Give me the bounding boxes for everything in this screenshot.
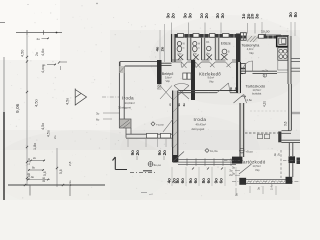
paper background washes (0, 0, 300, 200)
svg-text:Elősze: Elősze (221, 42, 231, 46)
svg-text:5,8: 5,8 (43, 171, 47, 176)
svg-text:4,5o: 4,5o (47, 130, 51, 137)
kitchen counter lower (278, 61, 288, 71)
ticks below window band (192, 168, 194, 170)
svg-text:Közlekedő: Közlekedő (199, 71, 221, 76)
north arrow pennant (75, 89, 86, 106)
wall below tartozkodo right (282, 130, 292, 132)
svg-text:4,2o: 4,2o (263, 101, 267, 107)
teakonyha right wall (288, 36, 291, 84)
svg-text:4,50: 4,50 (21, 50, 25, 57)
door diagonal at bottom right (163, 119, 173, 132)
left wall bottom hatched block (119, 119, 131, 128)
wc block left exterior wall (172, 34, 176, 62)
exterior wall top of wc block (172, 34, 241, 38)
svg-text:Fl.: Fl. (207, 40, 210, 44)
svg-text:2o: 2o (171, 13, 176, 19)
svg-text:4,5o: 4,5o (41, 123, 45, 130)
svg-text:2o: 2o (234, 87, 238, 91)
big iroda bottom window band (178, 159, 236, 161)
section dash-dot line (130, 172, 155, 174)
svg-text:3o: 3o (188, 13, 193, 19)
svg-text:Vkp: Vkp (166, 79, 171, 83)
right exterior stubs upper (292, 58, 301, 60)
svg-text:2o: 2o (135, 150, 140, 156)
teakonyha door arc (243, 61, 253, 71)
wall belepo-kozlekedo (191, 60, 195, 100)
chimney flue block (241, 33, 247, 41)
bottom smudge marks (141, 192, 147, 194)
marks below terrace (235, 188, 237, 196)
leader stubs below left iroda (127, 139, 129, 147)
wc room WC toilet rings (193, 42, 197, 46)
svg-text:±o,3o: ±o,3o (210, 149, 218, 153)
svg-text:3o: 3o (255, 13, 260, 19)
svg-text:6o: 6o (206, 178, 211, 184)
svg-text:2o: 2o (160, 46, 165, 51)
svg-text:5,8: 5,8 (59, 169, 63, 174)
small rects on dashed line (258, 134, 263, 139)
svg-text:burkolat: burkolat (252, 92, 262, 96)
svg-text:9o: 9o (31, 175, 35, 179)
vent boxes on top wall (178, 34, 184, 38)
svg-text:14,04m²: 14,04m² (125, 101, 135, 105)
svg-text:Iroda: Iroda (122, 95, 134, 100)
belepo top wall to outside (157, 62, 172, 64)
svg-text:Tartózkodó: Tartózkodó (246, 84, 266, 89)
svg-text:2o: 2o (162, 150, 167, 156)
left iroda bottom wall (126, 133, 173, 135)
fl room fixture (207, 46, 211, 50)
svg-text:Belépő: Belépő (162, 72, 173, 76)
svg-text:Vkp: Vkp (249, 51, 254, 55)
dim mark cross right (58, 61, 60, 63)
wc partition wall 1 (187, 38, 191, 60)
tee wall right (278, 132, 281, 143)
hatched wall corner (247, 36, 258, 43)
wc door cross (178, 55, 184, 61)
svg-text:8o: 8o (32, 166, 36, 170)
terrace pillar right (286, 177, 293, 184)
window rect in bottom wall b (161, 133, 171, 138)
main wall between left iroda and big iroda (173, 91, 178, 163)
svg-text:9,06: 9,06 (15, 103, 21, 113)
svg-text:2o: 2o (168, 102, 172, 106)
top leader lines (171, 23, 173, 35)
centerline dash-dot left (102, 96, 119, 98)
left wall jog down (125, 128, 127, 138)
svg-text:3o: 3o (232, 172, 235, 176)
svg-text:49,43m²: 49,43m² (196, 122, 207, 126)
wc partition wall 3 (215, 38, 219, 60)
wall big iroda to tartozkodo upper (238, 62, 241, 93)
left iroda top wall (120, 61, 157, 63)
svg-text:2,4o: 2,4o (270, 184, 274, 190)
eloter basin circle (222, 49, 227, 54)
svg-text:3o: 3o (96, 112, 100, 116)
dim line top-left horizontal (16, 32, 62, 34)
svg-text:2,6o: 2,6o (247, 98, 253, 102)
dashed partition line (245, 132, 278, 134)
right wall to pillar (288, 163, 290, 177)
dim line vertical left (26, 33, 28, 186)
terrace centerline (232, 181, 300, 183)
svg-text:3o: 3o (220, 13, 225, 19)
radiator squares left of tartozkodo (241, 64, 246, 69)
teakonyha bottom wall (238, 70, 277, 72)
svg-text:2o: 2o (277, 152, 281, 156)
tick on vertical (26, 60, 28, 62)
pillar right of window band (232, 157, 242, 164)
tartozkodo door swing (234, 95, 247, 104)
terrace pillar left (239, 178, 246, 185)
svg-text:délnyugati: délnyugati (192, 127, 205, 131)
svg-text:2,8: 2,8 (68, 161, 72, 166)
svg-text:Iroda: Iroda (194, 117, 207, 122)
svg-text:2o: 2o (53, 135, 57, 139)
stub below b (69, 185, 71, 196)
svg-text:5,6m²: 5,6m² (165, 75, 172, 79)
svg-text:+9,oo: +9,oo (245, 149, 253, 153)
elevation circle +9,00 (240, 148, 245, 153)
elevation mark plusminus in big iroda (205, 149, 209, 153)
tartozkodo right wall (289, 84, 292, 131)
svg-text:36négyzet: 36négyzet (118, 105, 131, 109)
tick second vertical (56, 167, 58, 169)
leaders below window band (171, 167, 173, 186)
circle-cross elevation 30,00 (148, 162, 153, 167)
vertical dim line second (56, 148, 58, 187)
bottom-left main dim line (8, 184, 105, 186)
svg-text:3o,oo: 3o,oo (154, 163, 162, 167)
stub below a (29, 185, 31, 196)
hatch stub under wall (157, 84, 161, 90)
svg-text:4,5o: 4,5o (34, 98, 39, 107)
vertical dashed line right (280, 150, 282, 178)
wc door cross (193, 55, 199, 61)
kitchen sink unit (277, 36, 288, 47)
svg-text:+o,2o: +o,2o (262, 69, 269, 73)
belepo door swing cross left (160, 86, 172, 100)
left wall top hatch block (119, 66, 124, 73)
svg-text:3o: 3o (257, 187, 261, 190)
kozlekedo bottom wall (179, 90, 241, 92)
svg-text:1,8o: 1,8o (33, 143, 37, 150)
window rect in bottom wall a (147, 133, 158, 138)
svg-text:3o: 3o (232, 166, 235, 170)
wc room WC toilet rings (177, 42, 181, 46)
wall right of eloter (236, 34, 241, 75)
fl door cross (207, 55, 213, 61)
svg-text:6o: 6o (180, 178, 185, 184)
wc door swings (181, 62, 187, 68)
speck top (96, 3, 97, 4)
left iroda left wall (118, 62, 120, 128)
svg-text:6o: 6o (96, 118, 100, 122)
right wall stub to edge (291, 111, 300, 113)
door opening swing to iroda (217, 83, 230, 93)
left corner of window band (173, 155, 178, 163)
kitchen burners (278, 48, 288, 61)
svg-text:Tartózkodó: Tartózkodó (241, 159, 266, 164)
elevation diamond +0,00 (151, 122, 155, 126)
right wall down from tee (288, 143, 290, 156)
wc partition wall 2 (202, 38, 205, 60)
svg-text:Vkp: Vkp (255, 168, 260, 172)
svg-text:Vkp: Vkp (209, 79, 214, 83)
right corner wall block (289, 156, 296, 163)
svg-text:1o,oo: 1o,oo (261, 30, 270, 34)
leader to belepo wall (159, 30, 161, 60)
svg-text:2o: 2o (37, 37, 41, 41)
svg-text:4,0m²: 4,0m² (247, 47, 254, 51)
svg-text:8o: 8o (293, 12, 298, 18)
svg-text:9,6m²: 9,6m² (208, 76, 215, 80)
teakonyha top wall (241, 36, 278, 39)
dashed centerline in tartozkodo (250, 110, 286, 112)
svg-text:6o: 6o (219, 178, 224, 184)
svg-text:13,5m²: 13,5m² (253, 88, 261, 92)
svg-text:3,6: 3,6 (283, 121, 287, 126)
scan edge line left (3, 57, 5, 112)
svg-text:4o: 4o (68, 180, 72, 184)
svg-text:+o,oo: +o,oo (156, 123, 164, 127)
svg-text:9o: 9o (177, 103, 181, 107)
door leaf rects in wall (183, 73, 187, 79)
wc bottom wall with door openings (172, 59, 182, 61)
terrace beam (240, 178, 292, 180)
svg-text:4,5o: 4,5o (66, 98, 70, 105)
diagonal ramp line (239, 164, 252, 174)
svg-text:Teakonyha: Teakonyha (242, 43, 261, 47)
section marker numeral 1 (113, 157, 116, 170)
svg-text:2o: 2o (33, 156, 37, 160)
left edge tick (0, 22, 5, 24)
centerline through corner blocks (224, 160, 240, 162)
wall big iroda to tartozkodo lower (240, 103, 244, 157)
svg-text:2o: 2o (35, 52, 39, 56)
eloter door cross (221, 54, 228, 60)
svg-text:4,oo: 4,oo (41, 66, 45, 73)
scan noise speckles (10, 4, 298, 199)
vent box on teakonyha wall (259, 35, 265, 39)
svg-text:9o: 9o (229, 87, 233, 91)
belepo left thick wall (157, 60, 162, 84)
svg-text:4,6o: 4,6o (41, 49, 45, 56)
belepo door swing cross right (174, 83, 189, 99)
svg-text:6o: 6o (193, 178, 198, 184)
svg-text:2o: 2o (204, 13, 209, 19)
window mullions (186, 158, 188, 165)
svg-text:13,5m²: 13,5m² (253, 164, 261, 168)
